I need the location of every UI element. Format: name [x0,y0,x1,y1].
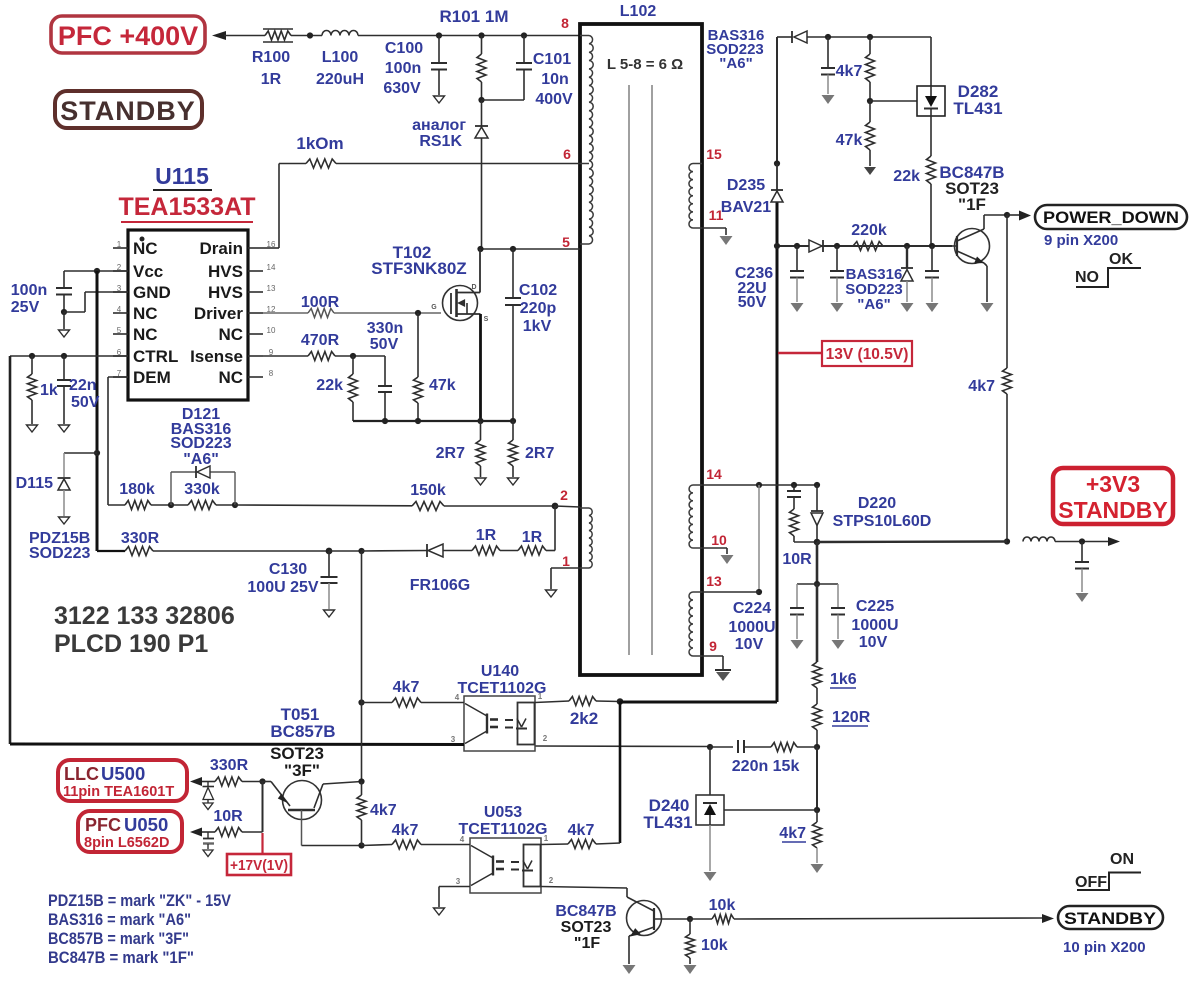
svg-text:L 5-8 = 6 Ω: L 5-8 = 6 Ω [607,56,683,73]
net label STANDBY out [1042,906,1163,929]
svg-text:Driver: Driver [194,304,244,323]
symbol ok-no step [1075,251,1141,287]
wire pin10 gnd [702,548,734,564]
svg-text:R101 1M: R101 1M [440,7,509,26]
svg-text:10V: 10V [859,634,888,651]
svg-text:400V: 400V [535,91,573,108]
svg-text:C224: C224 [733,600,771,617]
net label PFC U050 [78,811,182,852]
resistor 15k fb [771,743,817,776]
capacitor pfc pin [203,832,214,857]
svg-text:4k7: 4k7 [370,802,397,819]
svg-text:BC857B = mark "3F": BC857B = mark "3F" [48,929,189,948]
svg-text:STANDBY: STANDBY [1064,909,1157,928]
capacitor aux a [830,246,844,312]
svg-text:R100: R100 [252,49,290,66]
svg-text:NC: NC [218,325,243,344]
inductor 3v3 [1023,537,1055,542]
shunt reg D240 TL431 [643,747,817,881]
optocoupler U053 TCET1102G [456,804,554,893]
capacitor C225 pair [790,584,899,651]
svg-text:180k: 180k [119,481,155,498]
capacitor C130 100U 25V [247,548,337,617]
wire T102 source [479,314,482,421]
net label POWER_DOWN [984,205,1187,229]
svg-text:OK: OK [1109,251,1133,268]
wire opto cathode rail [10,743,464,747]
svg-text:1: 1 [544,834,549,843]
svg-text:D: D [471,284,476,291]
resistor 4k7 u053 out [541,822,620,849]
wire [291,35,322,37]
capacitor 3v3 out [1075,542,1089,603]
svg-text:L100: L100 [322,49,359,66]
wire u140 out2 row [535,744,733,750]
wire pfc arrow [212,31,265,40]
diode D121 BAS316 [170,406,235,505]
svg-text:4: 4 [460,835,465,844]
svg-text:D115: D115 [16,475,53,492]
svg-text:630V: 630V [383,80,421,97]
svg-text:10k: 10k [709,897,736,914]
svg-text:1kV: 1kV [523,318,552,335]
svg-text:25V: 25V [11,299,40,316]
winding 13-9 [689,592,702,656]
svg-text:6: 6 [563,146,571,162]
svg-text:1: 1 [538,692,543,701]
resistor 470R isense [263,332,385,361]
svg-text:U500: U500 [101,763,145,784]
svg-text:HVS: HVS [208,283,243,302]
svg-text:TCET1102G: TCET1102G [459,821,548,838]
svg-text:STPS10L60D: STPS10L60D [833,513,932,530]
label +17V 1V [227,833,291,875]
shunt reg D282 TL431 [917,37,1003,118]
diode D220 STPS10L60D [811,485,931,545]
svg-text:10R: 10R [782,551,812,568]
svg-text:PDZ15B = mark "ZK" - 15V: PDZ15B = mark "ZK" - 15V [48,891,232,910]
svg-text:1: 1 [562,553,570,569]
svg-text:3: 3 [456,877,461,886]
wire pin15 riser [776,37,778,164]
resistor R100 1R [252,29,293,88]
svg-text:1k6: 1k6 [830,671,857,688]
wire pin1 gnd [546,568,581,597]
wire Vcc rail [96,271,99,551]
resistor 120R [813,688,871,750]
diode BAS316 top [706,27,807,72]
svg-text:STANDBY: STANDBY [1058,497,1167,523]
capacitor C101 10n 400V [482,32,574,108]
resistor R101 1M [440,7,509,103]
diode RS1K snubber [412,100,488,249]
svg-text:1000U: 1000U [728,619,775,636]
svg-text:U115: U115 [155,163,209,189]
svg-text:CTRL: CTRL [133,347,178,366]
resistor 4k7 t051 [357,782,397,846]
resistor 4k7 u140 [358,679,464,707]
wire 3v3 out [1055,537,1120,546]
svg-text:S: S [484,316,489,323]
wire GND pin [85,291,128,293]
svg-text:C102: C102 [519,282,557,299]
text notes [48,891,232,967]
svg-text:C100: C100 [385,40,423,57]
svg-text:10 pin X200: 10 pin X200 [1063,939,1146,956]
svg-text:2: 2 [543,734,548,743]
svg-text:U050: U050 [124,814,168,835]
svg-text:470R: 470R [301,332,340,349]
svg-text:Isense: Isense [190,347,243,366]
svg-text:14: 14 [267,263,276,272]
svg-text:2: 2 [549,876,554,885]
svg-text:10V: 10V [735,636,764,653]
svg-text:50V: 50V [370,336,399,353]
wire Drain to 1kOm [263,247,279,249]
resistor 100R [263,294,441,318]
svg-text:NC: NC [133,239,158,258]
resistor 4k7 top [836,37,875,104]
capacitor C100 100n 630V [383,32,447,103]
svg-text:14: 14 [706,466,722,482]
svg-text:330n: 330n [367,320,403,337]
net label PFC +400V [51,16,205,53]
zener llc pin [203,782,215,810]
svg-text:4: 4 [455,693,460,702]
svg-text:LLC: LLC [64,764,99,784]
svg-text:9 pin X200: 9 pin X200 [1044,232,1118,249]
svg-text:2: 2 [560,487,568,503]
svg-text:C101: C101 [533,51,571,68]
svg-text:SOD223: SOD223 [29,545,90,562]
wire 13V cap row [774,243,952,249]
winding 2-1 [580,508,592,568]
wire left rail [9,356,12,744]
svg-text:D220: D220 [858,495,896,512]
svg-text:ON: ON [1110,851,1134,868]
resistor 1k [27,356,58,432]
resistor 10k h [690,897,1042,924]
net label +3V3 STANDBY [1053,468,1173,524]
svg-text:1kOm: 1kOm [296,134,343,153]
svg-text:100R: 100R [301,294,340,311]
svg-text:PFC: PFC [85,815,121,835]
diode FR106G [362,544,473,594]
net label STANDBY input [55,91,202,128]
svg-text:POWER_DOWN: POWER_DOWN [1043,208,1179,227]
symbol on-off step [1075,851,1141,891]
svg-text:G: G [431,304,437,311]
resistor 150k [235,482,555,511]
svg-text:1R: 1R [522,529,543,546]
svg-text:+3V3: +3V3 [1086,471,1140,497]
svg-text:5: 5 [117,326,122,335]
svg-text:2R7: 2R7 [525,445,554,462]
wire fb node [816,747,818,810]
svg-text:1k: 1k [40,382,58,399]
svg-text:22k: 22k [316,377,343,394]
svg-text:TL431: TL431 [643,813,692,832]
capacitor C224 link [756,485,762,595]
svg-text:2R7: 2R7 [436,445,465,462]
svg-text:22k: 22k [893,168,920,185]
resistor 180k [108,481,171,510]
winding 15-11 [689,164,702,229]
svg-text:U140: U140 [481,663,519,680]
resistor 10R t051 [190,782,263,837]
winding 14-10 [689,485,702,548]
svg-text:330R: 330R [210,757,249,774]
wire ctrl drop2 [361,703,363,782]
diode D235 BAV21 [721,160,783,216]
zener D115 PDZ15B [16,450,100,562]
svg-text:BAV21: BAV21 [721,199,771,216]
svg-text:8pin L6562D: 8pin L6562D [84,835,169,851]
transistor BC847B bottom [555,897,693,974]
svg-text:4: 4 [117,305,122,314]
svg-text:11pin TEA1601T: 11pin TEA1601T [63,784,174,800]
svg-text:4k7: 4k7 [392,822,419,839]
svg-text:RS1K: RS1K [419,133,462,150]
svg-text:STANDBY: STANDBY [60,96,196,126]
svg-text:8: 8 [269,369,274,378]
svg-text:50V: 50V [71,394,100,411]
wire 3v3 down [816,542,819,584]
svg-text:SOT23: SOT23 [561,919,612,936]
transistor T051 BC857B [259,705,364,849]
svg-text:220n: 220n [732,758,768,775]
svg-text:L102: L102 [620,3,657,20]
svg-text:1000U: 1000U [851,617,898,634]
svg-text:U053: U053 [484,804,522,821]
resistor 22k right [893,116,935,246]
wire pin13 [702,591,759,593]
wire down to u053 [619,702,622,844]
wire pin9 gnd [702,656,731,681]
svg-text:4k7: 4k7 [836,63,863,80]
svg-text:Drain: Drain [200,239,243,258]
IC pins and labels [113,239,276,387]
svg-text:GND: GND [133,283,171,302]
capacitor C236 22U 50V [735,246,804,312]
wire top right row [777,34,931,40]
wire [329,550,362,552]
svg-text:TEA1533AT: TEA1533AT [118,193,255,221]
wire u053 pin3 gnd [434,887,471,916]
wire pin14 row [702,482,820,488]
resistor 330R [121,530,329,556]
svg-text:10: 10 [267,326,276,335]
diode BAS316 low [845,246,913,313]
resistor 22k [316,356,357,421]
optocoupler U140 TCET1102G [451,663,548,751]
svg-text:13: 13 [706,573,722,589]
svg-text:C130: C130 [269,561,307,578]
svg-text:220p: 220p [520,300,557,317]
svg-text:5: 5 [562,234,570,250]
resistor 220k [851,222,887,251]
resistor 4k7 powerdown [968,215,1011,545]
capacitor 4k7 branch cap [821,37,835,104]
svg-text:"A6": "A6" [857,296,890,313]
wire ctrl drop [361,551,363,703]
wire pin11 gnd [702,228,733,245]
svg-text:100U 25V: 100U 25V [247,579,318,596]
svg-text:4k7: 4k7 [968,378,995,395]
svg-text:C225: C225 [856,598,894,615]
resistor 1k6 [813,584,857,688]
wire CTRL [10,355,128,357]
svg-text:3122 133 32806: 3122 133 32806 [54,602,235,630]
resistor 47k driver [414,313,456,421]
svg-text:TCET1102G: TCET1102G [458,680,547,697]
resistor 330R t051 [190,757,263,786]
wire DEM [108,376,128,378]
diode BAS316 mid [809,240,823,252]
svg-text:220k: 220k [851,222,887,239]
wire tl431 ref [870,100,917,102]
svg-text:NC: NC [133,304,158,323]
svg-text:BC847B = mark "1F": BC847B = mark "1F" [48,948,194,967]
svg-text:4k7: 4k7 [779,825,806,842]
capacitor 330n 50V [367,320,403,421]
svg-text:PLCD 190 P1: PLCD 190 P1 [54,630,208,658]
svg-text:BC847B: BC847B [555,903,616,920]
resistor 1R b [500,529,555,555]
resistor 10k v [684,919,728,974]
svg-text:47k: 47k [836,132,863,149]
svg-text:4k7: 4k7 [568,822,595,839]
svg-text:"3F": "3F" [284,761,320,780]
resistor 4k7 u053 in [362,822,471,849]
capacitor 220n fb [732,740,771,775]
svg-text:10n: 10n [541,71,569,88]
resistor 2R7 b [508,421,555,485]
svg-text:13V (10.5V): 13V (10.5V) [826,346,909,363]
capacitor C102 220p 1kV [505,249,557,421]
wire bottom rail [617,698,777,705]
svg-text:D235: D235 [727,177,765,194]
svg-text:NC: NC [218,368,243,387]
winding primary 8-6-5 [580,36,593,245]
svg-text:220uH: 220uH [316,71,364,88]
resistor 2k2 [535,697,620,729]
svg-text:"A6": "A6" [183,451,219,468]
svg-text:"1F: "1F [574,935,600,952]
svg-text:1R: 1R [476,527,497,544]
wire u053 pin2 [541,887,627,889]
transformer L102 body [580,3,702,675]
svg-text:1R: 1R [261,71,282,88]
wire pin2 tap [552,503,580,551]
svg-text:330R: 330R [121,530,160,547]
svg-text:HVS: HVS [208,262,243,281]
svg-text:3: 3 [451,735,456,744]
svg-text:FR106G: FR106G [410,577,470,594]
net label LLC U500 [58,760,187,801]
svg-text:TL431: TL431 [953,99,1002,118]
svg-text:15k: 15k [773,758,800,775]
resistor 2R7 a [436,421,486,485]
transistor BC847B top [939,163,1004,312]
svg-text:NC: NC [133,325,158,344]
svg-text:аналог: аналог [412,117,466,134]
wire 13V rail [776,202,779,702]
label 13V 10.5V [778,341,912,366]
svg-text:8: 8 [561,15,569,31]
svg-text:NO: NO [1075,269,1099,286]
svg-text:2k2: 2k2 [570,709,598,728]
svg-text:9: 9 [709,638,717,654]
wire top rail [358,35,580,37]
svg-text:"1F: "1F [958,195,986,214]
IC U115 TEA1533AT [118,163,255,400]
svg-text:PFC +400V: PFC +400V [58,21,198,51]
capacitor 100n 25V [11,268,128,337]
svg-text:STF3NK80Z: STF3NK80Z [371,259,466,278]
svg-text:BC857B: BC857B [270,722,335,741]
svg-text:BAS316 = mark "A6": BAS316 = mark "A6" [48,910,191,929]
wire pin5 drain node [477,246,580,252]
svg-text:13: 13 [267,284,276,293]
resistor 330k [168,481,238,510]
wire 3v3 rail [817,540,1007,543]
svg-text:10k: 10k [701,937,728,954]
svg-text:+17V(1V): +17V(1V) [230,857,288,874]
capacitor aux b [925,246,939,312]
resistor 47k right [836,101,876,175]
svg-text:15: 15 [706,146,722,162]
resistor 1kOm pin6 wire [279,134,580,168]
resistor 1R a [472,527,500,555]
resistor 4k7 fb [779,810,823,873]
svg-text:10R: 10R [213,808,243,825]
capacitor 22n 50V [57,356,100,432]
svg-text:SOD223: SOD223 [170,435,231,452]
svg-text:150k: 150k [410,482,446,499]
svg-text:OFF: OFF [1075,874,1107,891]
svg-text:47k: 47k [429,377,456,394]
svg-text:1: 1 [117,240,122,249]
svg-text:Vcc: Vcc [133,262,163,281]
transistor T102 STF3NK80Z [371,243,488,323]
svg-text:100n: 100n [385,60,421,77]
inductor L100 220uH [316,31,364,89]
svg-text:120R: 120R [832,709,871,726]
svg-text:"A6": "A6" [719,55,752,72]
svg-text:100n: 100n [11,282,47,299]
svg-text:330k: 330k [184,481,220,498]
svg-text:22n: 22n [69,377,97,394]
svg-text:DEM: DEM [133,368,171,387]
svg-text:4k7: 4k7 [393,679,420,696]
svg-text:10: 10 [711,532,727,548]
svg-text:50V: 50V [738,294,767,311]
wire ground bus [353,418,516,424]
snubber cap 10R branch [782,485,817,568]
